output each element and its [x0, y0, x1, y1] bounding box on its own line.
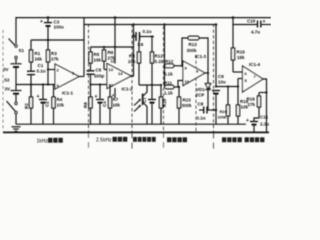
svg-text:100u: 100u	[54, 25, 65, 30]
svg-text:R5: R5	[94, 52, 100, 57]
svg-text:+: +	[208, 86, 211, 92]
svg-text:+: +	[263, 19, 266, 25]
resistor R2	[30, 85, 32, 98]
svg-text:2.2u: 2.2u	[260, 122, 269, 127]
svg-text:R16: R16	[247, 97, 256, 102]
ground	[12, 126, 21, 128]
svg-text:0.1u: 0.1u	[197, 116, 206, 121]
resistor R23	[178, 87, 180, 97]
svg-text:14: 14	[118, 71, 123, 76]
capacitor C3	[47, 18, 49, 22]
resistor R7	[109, 85, 111, 98]
resistor R8b	[90, 85, 92, 98]
capacitor C5	[90, 63, 92, 70]
dashed divider sec2/sec3	[131, 24, 133, 132]
svg-text:+: +	[37, 94, 40, 100]
resistor R11	[165, 85, 174, 89]
svg-text:C8: C8	[198, 102, 204, 107]
tick marks below frame	[131, 132, 133, 150]
svg-text:+: +	[246, 118, 249, 124]
switch S1 top	[15, 45, 18, 48]
svg-text:R13: R13	[189, 42, 198, 47]
capacitor C7	[151, 85, 153, 99]
node line sec2	[91, 46, 134, 48]
dashed divider sec4/sec5a	[195, 55, 197, 132]
dashed divider sec4/sec5	[213, 24, 215, 132]
wire C10 branch	[233, 18, 257, 25]
svg-text:16k: 16k	[35, 57, 43, 62]
svg-text:+: +	[95, 94, 98, 100]
svg-text:C10: C10	[247, 19, 256, 24]
svg-text:3V: 3V	[3, 67, 9, 72]
svg-text:C7: C7	[142, 97, 147, 103]
dashed divider sec3/sec4	[163, 26, 165, 132]
svg-text:300k: 300k	[182, 103, 193, 108]
svg-text:5.1k: 5.1k	[155, 59, 164, 64]
resistor R12	[151, 37, 153, 53]
label bao jing dian lu kong zhi dian lu	[222, 137, 264, 142]
svg-text:R1: R1	[35, 51, 41, 56]
wire V+ top rail	[16, 18, 271, 44]
resistor R24	[227, 87, 229, 106]
battery GB1	[11, 63, 22, 65]
svg-text:R7: R7	[113, 97, 119, 102]
svg-text:10u: 10u	[218, 80, 226, 85]
label fang da dian lu	[167, 137, 187, 142]
svg-text:500p: 500p	[94, 74, 105, 79]
svg-text:27k: 27k	[51, 57, 59, 62]
resistor R1	[30, 40, 32, 50]
resistor R16	[259, 92, 267, 94]
svg-text:C5: C5	[96, 68, 102, 73]
svg-text:27k: 27k	[248, 102, 256, 107]
svg-text:16k: 16k	[94, 58, 102, 63]
svg-text:24k: 24k	[128, 59, 136, 64]
svg-text:2CP: 2CP	[196, 93, 205, 98]
resistor R12b top	[165, 64, 174, 68]
svg-text:R8: R8	[83, 102, 88, 108]
svg-text:R12: R12	[165, 59, 174, 64]
capacitor C4	[99, 85, 101, 100]
svg-text:R6: R6	[108, 50, 114, 55]
resistor R15	[232, 25, 234, 49]
wire bias mid	[16, 84, 55, 86]
svg-text:16k: 16k	[113, 103, 121, 108]
svg-text:2.5kHz: 2.5kHz	[96, 137, 112, 143]
switch S2 bottom	[15, 102, 18, 105]
svg-text:3V: 3V	[5, 87, 11, 92]
op-amp IC1-2 power	[114, 18, 116, 64]
capacitor C10	[257, 21, 259, 28]
wire signal bus y24	[84, 18, 216, 25]
svg-text:R3: R3	[51, 51, 57, 56]
svg-text:C6: C6	[138, 42, 144, 47]
svg-text:R2: R2	[24, 103, 29, 109]
svg-text:IC1-2: IC1-2	[122, 87, 134, 92]
op-amp IC1-2	[107, 64, 131, 89]
svg-text:IC1-3: IC1-3	[195, 54, 207, 59]
svg-text:13: 13	[109, 67, 114, 72]
svg-text:S1: S1	[19, 48, 25, 53]
wire bottom frame line	[3, 131, 269, 133]
svg-text:12: 12	[109, 83, 114, 88]
svg-text:R24: R24	[220, 109, 228, 114]
capacitor C9	[215, 25, 217, 87]
wire sec2 mid	[91, 84, 111, 86]
svg-text:IC1-4: IC1-4	[249, 62, 261, 67]
capacitor C1	[30, 62, 32, 71]
svg-text:1.1k: 1.1k	[164, 91, 173, 96]
capacitor C11	[250, 121, 258, 123]
dashed box left edge	[2, 30, 4, 131]
svg-text:C4: C4	[102, 101, 107, 107]
svg-text:R11: R11	[164, 81, 173, 86]
op-amp IC1-3	[183, 61, 205, 86]
svg-text:R4: R4	[57, 97, 63, 102]
svg-text:C1: C1	[38, 63, 44, 68]
dashed divider sec1/sec2	[88, 24, 90, 132]
wire op1 output feedback vertical	[83, 25, 85, 77]
svg-text:10: 10	[185, 79, 190, 84]
svg-text:R15: R15	[237, 50, 246, 55]
svg-text:4.7u: 4.7u	[251, 30, 260, 35]
resistor R3	[47, 40, 49, 50]
resistor R8	[138, 41, 140, 52]
svg-text:R23: R23	[183, 98, 192, 103]
svg-text:300k: 300k	[187, 48, 198, 53]
wire sec4 input	[164, 25, 166, 88]
svg-text:S2: S2	[4, 78, 10, 83]
resistor R6	[103, 47, 105, 50]
wire pin2	[47, 62, 49, 85]
section label blobs (Chinese text rendered as glyph blobs)	[37, 137, 265, 145]
svg-text:C11: C11	[260, 115, 269, 120]
svg-text:18k: 18k	[237, 55, 245, 60]
label chuan gan qi dian lu	[133, 137, 156, 142]
svg-text:0.1u: 0.1u	[37, 69, 46, 74]
svg-text:+: +	[40, 19, 43, 25]
svg-text:C2: C2	[45, 101, 50, 107]
diode VD1	[207, 73, 209, 84]
capacitor C8	[199, 109, 203, 111]
svg-text:100k: 100k	[218, 115, 228, 120]
svg-text:10k: 10k	[57, 103, 65, 108]
phototransistor VT1	[142, 94, 144, 106]
resistor R13 feedback	[182, 38, 188, 66]
svg-text:5.1k: 5.1k	[164, 72, 173, 77]
resistor R10	[160, 85, 162, 97]
svg-text:C9: C9	[218, 74, 224, 79]
capacitor C6	[134, 36, 136, 38]
wire pin6	[233, 71, 243, 73]
battery GB2	[11, 90, 22, 92]
svg-text:R10: R10	[162, 98, 167, 107]
svg-text:VD1: VD1	[196, 87, 205, 92]
op-amp IC1-1	[55, 64, 79, 89]
node line sec1	[31, 39, 84, 41]
svg-text:1kHz: 1kHz	[37, 138, 49, 144]
wire sensor out	[139, 84, 161, 86]
wire pin5	[238, 78, 243, 80]
svg-text:R12: R12	[155, 54, 164, 59]
svg-text:IC1-1: IC1-1	[62, 91, 74, 96]
svg-text:R8: R8	[129, 54, 135, 59]
svg-text:0.1u: 0.1u	[143, 29, 152, 34]
op-amp IC1-4	[243, 66, 264, 92]
resistor R19	[236, 105, 239, 116]
resistor R4	[53, 85, 55, 98]
capacitor C2	[42, 85, 44, 100]
resistor R5	[90, 47, 92, 52]
wire ground bus	[16, 123, 246, 125]
